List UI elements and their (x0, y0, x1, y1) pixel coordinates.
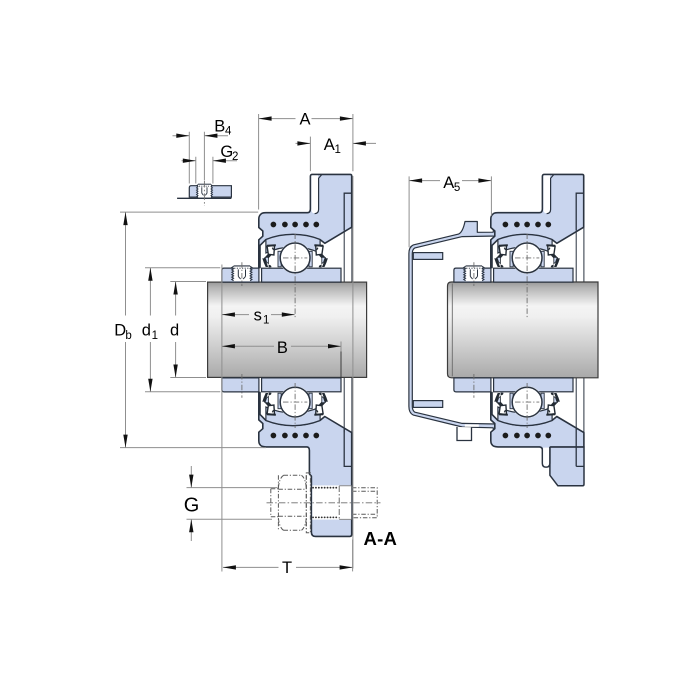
bearing upper (A-A) (454, 234, 573, 282)
housing lower + flange foot (259, 392, 352, 536)
bolt hole in flange (312, 485, 351, 519)
seat dots upper (A-A) (503, 222, 509, 228)
mounting bolt (phantom) (271, 473, 377, 533)
housing upper + flange column (259, 174, 352, 267)
inset: locking collar detail (177, 181, 231, 206)
svg-text:1: 1 (334, 144, 340, 156)
center lines (A-A) (474, 234, 539, 429)
flange plate edges behind section (A-A) (576, 228, 584, 433)
seat dots lower (271, 433, 277, 439)
svg-text:b: b (125, 330, 131, 342)
svg-text:A-A: A-A (364, 528, 397, 549)
svg-text:A: A (299, 111, 310, 129)
seat dots lower (A-A) (503, 433, 509, 439)
svg-text:T: T (282, 559, 292, 577)
bearing lower (mirror) (222, 378, 341, 426)
flange plate edges behind section (344, 228, 352, 433)
bearing lower (A-A mirror) (454, 378, 573, 426)
housing upper + flange column (A-A) (491, 174, 584, 267)
housing lower + flange foot (A-A) (498, 447, 584, 486)
svg-text:1: 1 (152, 330, 158, 342)
shaft (208, 282, 367, 377)
svg-text:d: d (170, 322, 179, 340)
svg-text:A: A (443, 174, 454, 192)
center lines (242, 234, 307, 429)
dimensions (120, 114, 491, 572)
right view: section A-A with end cover (409, 174, 598, 485)
svg-text:B: B (214, 117, 225, 135)
end cover (pressed sheet cap) (409, 222, 497, 433)
svg-text:B: B (277, 339, 288, 357)
svg-text:d: d (142, 322, 151, 340)
svg-text:2: 2 (232, 151, 238, 163)
shaft (A-A) (448, 282, 599, 378)
svg-text:s: s (254, 306, 262, 324)
bearing upper (222, 234, 341, 282)
inner ring right face edge (340, 342, 342, 378)
seat dots upper (271, 222, 277, 228)
dimension arrows (176, 134, 189, 138)
svg-text:1: 1 (263, 315, 269, 327)
end cover bottom tab (457, 427, 472, 441)
svg-text:4: 4 (225, 126, 232, 138)
svg-text:G: G (184, 495, 200, 517)
svg-text:5: 5 (454, 182, 460, 194)
left view: flanged unit section through bolt hole (208, 174, 381, 536)
svg-text:A: A (324, 136, 335, 154)
